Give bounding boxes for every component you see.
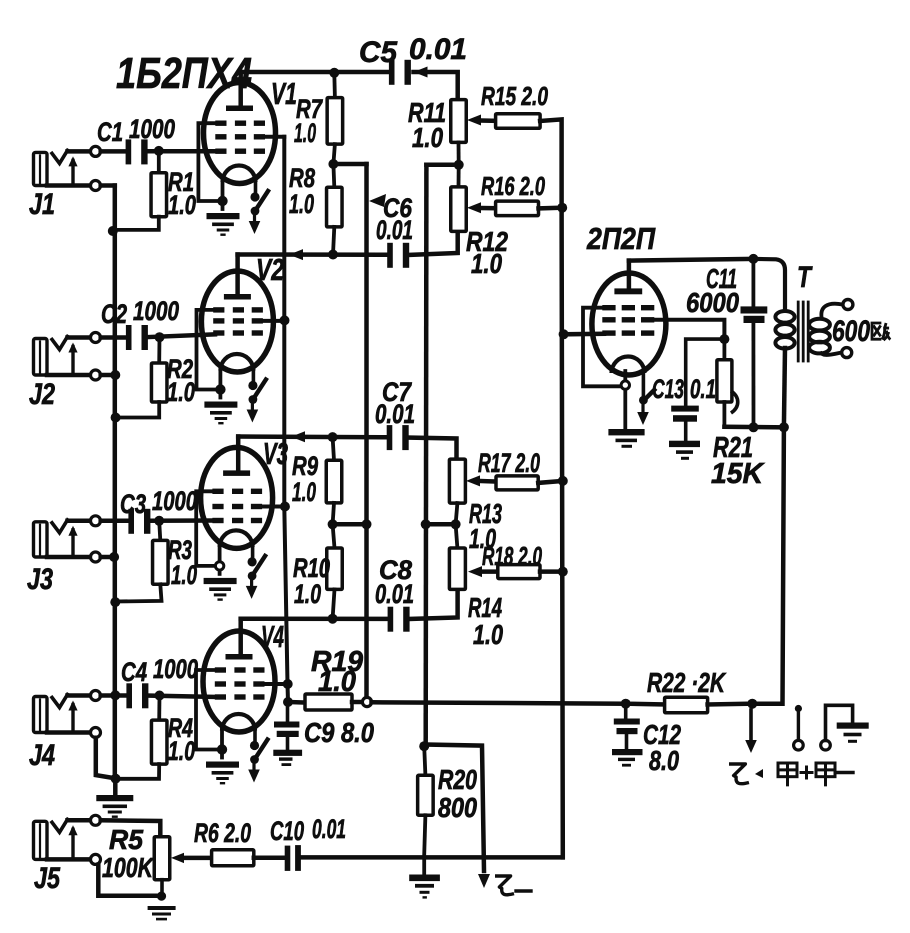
jack J3 tip contact xyxy=(52,520,68,533)
wire node to transformer vertical xyxy=(752,427,784,703)
tube V5 cathode junction circle xyxy=(621,381,629,389)
paren mark near R21 xyxy=(731,391,738,413)
ground symbol R5 xyxy=(148,906,176,910)
jack J4 plug arrow xyxy=(71,705,74,733)
svg-text:J1: J1 xyxy=(29,188,55,221)
node R9 top xyxy=(328,432,338,442)
node C1-R1 xyxy=(154,146,164,156)
node R18 HT bus xyxy=(558,567,568,577)
resistor R7 xyxy=(332,73,336,98)
tube V5 cathode lead xyxy=(623,371,627,429)
svg-text:R6 2.0: R6 2.0 xyxy=(194,818,251,848)
jack J4 tip contact xyxy=(52,695,68,708)
resistor R15 xyxy=(481,118,496,123)
svg-text:J5: J5 xyxy=(34,862,61,895)
svg-text:2П2П: 2П2П xyxy=(586,221,655,256)
transformer T secondary bottom lead xyxy=(820,352,841,356)
jack J2 plug arrow xyxy=(71,347,74,376)
svg-text:C10: C10 xyxy=(270,816,304,846)
tube V3 suppressor-to-cathode bracket xyxy=(196,491,219,566)
arrow after C5 xyxy=(414,67,428,78)
svg-text:1.0: 1.0 xyxy=(289,189,314,219)
node R7-R8 junction xyxy=(328,159,338,169)
svg-text:R22 ·2K: R22 ·2K xyxy=(647,667,726,698)
svg-text:C13: C13 xyxy=(652,374,684,404)
tube V5 envelope xyxy=(592,273,666,375)
ground symbol C12 xyxy=(612,749,643,755)
jack J3 sleeve terminal xyxy=(47,555,91,560)
wire V3 screen to bus xyxy=(262,505,285,509)
node output branch xyxy=(747,699,757,709)
capacitor C8 xyxy=(388,607,394,632)
jack J1 body xyxy=(34,152,48,185)
node R13-R14 junction xyxy=(451,519,461,529)
wire C6 to R12 bottom xyxy=(407,231,458,255)
jack J4 body xyxy=(34,697,48,733)
ground symbol input bus xyxy=(96,795,133,801)
resistor R14 xyxy=(456,524,458,548)
tube V2 cathode filament arc xyxy=(220,354,253,371)
jack J1 tip terminal xyxy=(68,149,91,154)
resistor R13 xyxy=(449,459,465,503)
node R11-R12 junction xyxy=(454,160,464,170)
resistor R9 xyxy=(333,437,334,460)
wire R6 to C10 xyxy=(254,855,284,860)
node R10 bottom xyxy=(328,614,338,624)
label Yi-minus xyxy=(495,876,514,895)
wire J2 sleeve to bus xyxy=(101,373,116,378)
tube V1 cathode junction dot xyxy=(217,196,227,206)
tube V2 anode plate xyxy=(224,294,251,300)
svg-text:1.0: 1.0 xyxy=(168,190,196,220)
resistor R18 xyxy=(482,569,498,574)
svg-text:1000: 1000 xyxy=(133,296,179,326)
tube V2 envelope xyxy=(201,271,273,372)
tube V3 anode plate xyxy=(223,470,250,476)
wire C4 to V4 grid xyxy=(146,696,216,698)
wire R21 bottom to transformer junction xyxy=(724,425,784,430)
mix bus A vertical xyxy=(364,164,369,702)
svg-text:C1: C1 xyxy=(97,117,123,147)
tube V2 cathode ground xyxy=(204,402,237,408)
capacitor C6 xyxy=(387,243,393,268)
tube V2 grid rows xyxy=(213,307,224,312)
capacitor C5 xyxy=(389,60,395,85)
node HT bus V5 grid xyxy=(559,329,569,339)
wire C3 to V3 grid xyxy=(148,518,215,523)
node mix bus A xyxy=(362,519,372,529)
jack J2 tip terminal xyxy=(68,335,91,340)
capacitor C10 xyxy=(285,846,291,871)
wire V4 anode row xyxy=(238,619,243,655)
wire R15 to HT bus xyxy=(540,119,562,207)
wire junction to mix bus B xyxy=(426,163,458,168)
resistor R16 xyxy=(481,206,496,211)
wire V3 anode row xyxy=(236,437,241,471)
wire J4 sleeve down to bus xyxy=(96,738,116,779)
tube V1 cathode filament arc xyxy=(223,166,256,183)
mix bus B vertical xyxy=(423,165,428,745)
tube V5 suppressor-to-cathode bracket xyxy=(583,308,621,387)
svg-text:1.0: 1.0 xyxy=(471,248,502,279)
svg-text:C5: C5 xyxy=(359,36,398,69)
label C6 0.01 xyxy=(369,194,386,207)
svg-text:1.0: 1.0 xyxy=(167,377,195,407)
wire V2 anode row xyxy=(235,255,240,295)
wire junction to mix bus B xyxy=(426,522,456,527)
capacitor C3 xyxy=(128,509,134,534)
node R9-R10 junction xyxy=(328,519,338,529)
transformer T primary winding xyxy=(775,311,794,323)
node R20 top xyxy=(419,741,429,751)
transformer T secondary top lead xyxy=(821,304,842,320)
transformer T secondary winding xyxy=(809,319,830,331)
ground symbol R20 xyxy=(422,857,426,874)
pot wiper arrow R12 xyxy=(467,202,481,213)
resistor R4 xyxy=(157,696,161,721)
ground bus lower stub xyxy=(113,779,118,795)
node R8 bottom xyxy=(328,250,338,260)
tube V1 suppressor-to-cathode bracket xyxy=(198,123,222,201)
wire R22 to transformer branch xyxy=(708,701,753,706)
wire J2 tip to C2 xyxy=(101,335,128,340)
wire junction to mix bus A xyxy=(333,162,366,167)
wire HT bus to V5 grid xyxy=(564,332,604,337)
resistor R1 xyxy=(157,151,161,173)
ground bus junction dots xyxy=(108,226,118,236)
svg-text:C2: C2 xyxy=(101,299,127,329)
tube V3 cathode lead xyxy=(218,545,222,574)
wire C2 to V2 grid xyxy=(145,334,215,337)
tube V1 cathode lead xyxy=(221,180,225,209)
resistor R3 xyxy=(159,521,160,541)
resistor R10 xyxy=(333,524,335,548)
jack J1 tip contact xyxy=(52,150,68,163)
jack J4 sleeve terminal xyxy=(47,730,91,735)
svg-text:V4: V4 xyxy=(261,619,284,654)
node mix bus B xyxy=(421,519,431,529)
svg-text:V2: V2 xyxy=(256,252,284,287)
node R7 top xyxy=(329,68,339,78)
resistor R17 xyxy=(480,479,496,484)
tube V3 grid rows xyxy=(212,489,223,494)
terminal B-plus arrow xyxy=(749,710,753,740)
tube V4 cathode lead xyxy=(220,729,224,758)
tube V4 cathode ground xyxy=(206,762,239,768)
tube V1 grid rows xyxy=(215,121,226,126)
tube V4 envelope xyxy=(203,631,275,732)
capacitor C12 xyxy=(614,719,640,725)
resistor R21 xyxy=(723,339,727,360)
R19 output junction circle xyxy=(352,700,363,705)
svg-text:R5: R5 xyxy=(109,824,143,855)
pot wiper arrow R11 xyxy=(467,115,481,126)
jack J5 body xyxy=(34,821,48,859)
bottom ground wire C10 to HT bus corner xyxy=(301,855,563,860)
resistor R12 xyxy=(457,165,461,187)
capacitor C9 xyxy=(274,722,299,728)
tube V1 envelope xyxy=(204,83,276,184)
svg-text:1000: 1000 xyxy=(153,654,198,684)
wire R18 to HT bus xyxy=(540,569,563,574)
arrow on V2 anode wire xyxy=(289,249,303,260)
svg-text:1.0: 1.0 xyxy=(318,666,356,698)
tube V3 cathode filament arc xyxy=(220,530,253,546)
screen feed wire to C12 xyxy=(372,702,626,703)
resistor R11 xyxy=(451,100,467,143)
capacitor C4 xyxy=(126,683,132,708)
terminal A-plus xyxy=(795,705,802,712)
tube V5 cathode ground xyxy=(608,429,644,435)
tube V4 cathode filament arc xyxy=(222,714,255,731)
wire J1 tip to C1 xyxy=(101,149,128,154)
potentiometer R5 xyxy=(154,837,170,880)
svg-text:0.01: 0.01 xyxy=(409,33,467,66)
resistor R6 xyxy=(212,850,254,866)
wire C1 to V1 grid xyxy=(145,149,217,154)
svg-text:R20: R20 xyxy=(438,764,477,795)
tube V5 grid rows xyxy=(602,305,615,310)
svg-text:1.0: 1.0 xyxy=(294,118,316,148)
svg-text:1.0: 1.0 xyxy=(412,122,443,153)
wire J1 sleeve to bus xyxy=(101,183,115,188)
tube V4 grid rows xyxy=(215,667,226,672)
svg-text:8.0: 8.0 xyxy=(649,745,679,776)
tube V2 suppressor-to-cathode bracket xyxy=(197,310,221,390)
wire V1 anode to C5 xyxy=(238,72,243,106)
R5 wiper arrow to R6 xyxy=(171,853,184,863)
node anode-C11 xyxy=(748,254,758,264)
svg-text:J4: J4 xyxy=(29,739,55,772)
terminal B-minus arrow xyxy=(478,874,490,888)
svg-text:1.0: 1.0 xyxy=(292,477,316,507)
tube V1 anode plate xyxy=(226,106,253,112)
pot wiper arrow R13 xyxy=(466,475,480,486)
transformer T core xyxy=(797,302,800,361)
ground symbol C9 xyxy=(273,750,302,756)
wire R17 to HT bus xyxy=(538,481,563,483)
svg-text:1Б2ПХ4: 1Б2ПХ4 xyxy=(116,49,252,98)
svg-text:C9 8.0: C9 8.0 xyxy=(304,717,374,748)
svg-text:R17 2.0: R17 2.0 xyxy=(478,448,540,478)
svg-text:600: 600 xyxy=(832,315,870,348)
wire C5 to R11 top xyxy=(414,72,458,100)
terminal A-minus xyxy=(821,740,831,750)
wire V5 anode to output node xyxy=(627,261,632,289)
wire R16 to HT bus xyxy=(539,205,563,210)
node R21 top xyxy=(719,334,729,344)
svg-text:C3: C3 xyxy=(120,489,146,519)
resistor R22 xyxy=(626,701,665,706)
tube V3 filament arrow xyxy=(251,544,255,560)
node C12 xyxy=(621,699,631,709)
wire C7 to R13 top xyxy=(406,438,457,460)
pot wiper arrow R14 xyxy=(468,566,482,577)
svg-text:1000: 1000 xyxy=(129,114,175,144)
svg-text:J2: J2 xyxy=(29,378,55,411)
node C4-R4 xyxy=(155,691,165,701)
svg-text:15K: 15K xyxy=(711,458,765,490)
svg-text:0.01: 0.01 xyxy=(376,215,413,245)
tube V2 cathode junction dot xyxy=(215,384,225,394)
arrow on V3 anode wire xyxy=(291,431,305,442)
svg-text:R18 2.0: R18 2.0 xyxy=(482,541,542,571)
wire V2 screen to bus xyxy=(263,319,284,323)
svg-text:1000: 1000 xyxy=(152,486,197,516)
jack J4 tip terminal xyxy=(68,693,91,698)
svg-text:100K: 100K xyxy=(102,852,154,883)
svg-text:0.01: 0.01 xyxy=(375,579,414,609)
tube V5 filament arrow xyxy=(642,372,646,396)
svg-text:800: 800 xyxy=(438,792,477,823)
node R17 HT bus xyxy=(558,476,568,486)
ground bus wire (left) xyxy=(113,186,118,779)
screen bus V1 tap xyxy=(263,135,284,139)
tube V5 anode plate xyxy=(614,288,642,294)
svg-text:T: T xyxy=(797,261,813,294)
wire V5 screen to R21 xyxy=(654,320,724,339)
wire junction to mix bus A xyxy=(333,522,367,527)
wire J4 tip to C4 xyxy=(101,693,128,698)
node C3-R3 xyxy=(154,516,164,526)
label Jia-plus xyxy=(778,763,797,777)
tube V5 cathode filament arc xyxy=(612,357,645,373)
resistor R2 xyxy=(157,337,161,363)
tube V3 cathode junction circle xyxy=(215,562,223,570)
tube V4 cathode junction dot xyxy=(217,744,227,754)
screen bus vertical xyxy=(284,137,288,702)
node C2-R2 xyxy=(155,332,165,342)
wire C8 to R14 bottom xyxy=(407,589,458,619)
tube V2 filament arrow xyxy=(252,368,256,384)
tube V1 filament arrow xyxy=(254,179,258,195)
label Yi-plus terminal xyxy=(729,764,749,784)
wire J3 tip to C3 xyxy=(101,519,128,524)
capacitor C7 xyxy=(387,425,393,450)
capacitor C2 xyxy=(126,325,132,350)
HT bus vertical xyxy=(562,208,563,858)
jack J2 sleeve terminal xyxy=(47,373,91,378)
output terminal bottom xyxy=(842,348,852,358)
capacitor C11 xyxy=(741,306,768,313)
jack J5 tip contact xyxy=(52,819,68,832)
R5 bottom junction dot xyxy=(160,880,164,895)
tube V3 envelope xyxy=(201,447,273,548)
svg-text:R16 2.0: R16 2.0 xyxy=(481,171,545,201)
resistor R19 xyxy=(288,700,305,705)
svg-text:J3: J3 xyxy=(27,563,53,596)
jack J5 tip terminal xyxy=(68,818,91,823)
label Jia-minus xyxy=(816,763,835,777)
svg-text:0.01: 0.01 xyxy=(312,814,346,844)
tube V3 cathode ground xyxy=(204,578,237,584)
tube V4 suppressor-to-cathode bracket xyxy=(196,670,222,750)
svg-text:C4: C4 xyxy=(121,657,147,687)
jack J2 tip contact xyxy=(52,337,68,350)
screen bus junction dots xyxy=(280,315,290,325)
svg-text:V1: V1 xyxy=(271,76,297,111)
jack J3 plug arrow xyxy=(71,530,74,557)
svg-text:R15 2.0: R15 2.0 xyxy=(481,81,548,111)
jack J5 sleeve terminal xyxy=(47,857,91,862)
jack J3 body xyxy=(34,522,48,557)
svg-text:1.0: 1.0 xyxy=(171,560,197,590)
jack J2 body xyxy=(34,339,48,376)
wire J3 sleeve to bus xyxy=(101,555,114,560)
capacitor C1 xyxy=(126,139,132,164)
jack J1 sleeve terminal xyxy=(47,183,91,188)
tube V4 anode plate xyxy=(226,654,253,660)
jack J5 plug arrow xyxy=(71,829,74,859)
ground symbol A-minus xyxy=(837,723,869,729)
jack J1 plug arrow xyxy=(71,160,74,185)
wire V4 screen to bus xyxy=(265,682,288,686)
ground symbol C13 xyxy=(669,441,700,447)
node R16 HT bus xyxy=(557,203,567,213)
svg-text:6000: 6000 xyxy=(686,287,739,318)
wire J5 sleeve to R5 bottom xyxy=(98,865,160,896)
svg-text:1.0: 1.0 xyxy=(294,579,321,609)
resistor R20 xyxy=(424,746,425,775)
capacitor C13 xyxy=(671,406,699,412)
svg-text:0.1: 0.1 xyxy=(690,374,716,404)
wire node to C13 xyxy=(686,339,725,406)
jack J3 tip terminal xyxy=(68,519,91,524)
transformer T primary top lead xyxy=(752,259,785,312)
tube V1 cathode ground xyxy=(207,213,240,219)
terminal B-minus wire xyxy=(426,745,484,872)
svg-text:1.0: 1.0 xyxy=(168,736,195,766)
wire J5 tip to R5 top xyxy=(101,820,161,836)
svg-text:0.01: 0.01 xyxy=(375,399,415,429)
tube V2 cathode lead xyxy=(218,369,222,398)
tube V4 filament arrow xyxy=(253,728,257,744)
resistor R8 xyxy=(331,164,336,187)
transformer T primary bottom lead xyxy=(784,348,785,427)
svg-text:1.0: 1.0 xyxy=(473,619,503,650)
output terminal top xyxy=(843,300,853,310)
